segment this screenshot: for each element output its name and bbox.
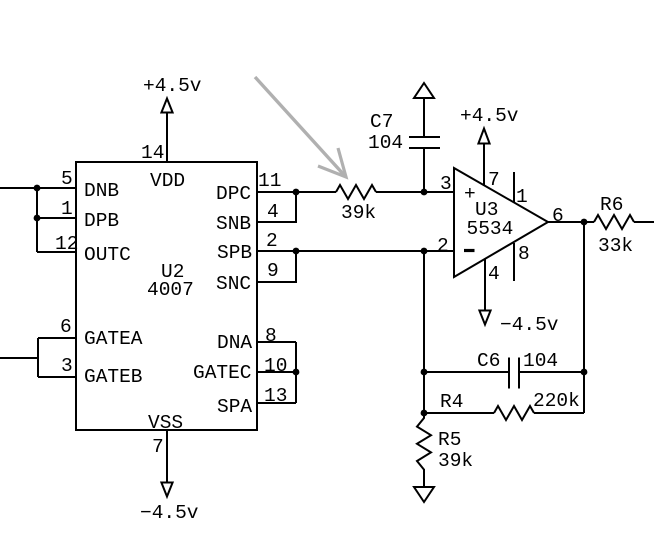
svg-text:DPB: DPB — [84, 210, 119, 232]
wire pin 14 VDD — [166, 112, 168, 162]
wire feedback left vertical — [423, 251, 425, 413]
svg-text:8: 8 — [265, 325, 277, 347]
node junction on pin5 wire — [34, 185, 41, 192]
wire pin 12 OUTC — [37, 251, 76, 253]
node junction pin11 — [293, 189, 300, 196]
svg-text:GATEC: GATEC — [193, 362, 252, 384]
svg-text:R6: R6 — [600, 194, 623, 216]
svg-text:+4.5v: +4.5v — [143, 75, 202, 97]
svg-text:1: 1 — [516, 186, 528, 208]
node junction C7 tap — [421, 189, 428, 196]
power +4.5v arrow (pin14) — [161, 99, 172, 113]
wire pin 4 SNB — [257, 192, 296, 222]
wire input left — [0, 357, 38, 359]
ground below R5 — [414, 487, 434, 502]
svg-text:SPA: SPA — [217, 396, 252, 418]
svg-text:4: 4 — [488, 263, 500, 285]
svg-text:39k: 39k — [438, 450, 473, 472]
resistor R4 — [494, 406, 534, 420]
wire pin 6 GATEA — [38, 337, 76, 339]
node junction output — [581, 219, 588, 226]
wire opamp pin4 supply — [484, 259, 486, 311]
node junction pin1 — [34, 215, 41, 222]
wire feedback right vertical — [583, 222, 585, 413]
wire R4 right — [534, 412, 584, 414]
capacitor C6 plates — [508, 358, 510, 389]
svg-text:GATEA: GATEA — [84, 328, 143, 350]
svg-text:6: 6 — [60, 316, 72, 338]
resistor R6 — [594, 215, 634, 229]
svg-text:2: 2 — [266, 230, 278, 252]
opamp comp pin 8 bar — [513, 243, 515, 281]
svg-text:DPC: DPC — [216, 183, 251, 205]
svg-text:+4.5v: +4.5v — [460, 105, 519, 127]
power +4.5v arrow (opamp) — [478, 129, 489, 144]
svg-text:14: 14 — [141, 142, 164, 164]
svg-text:9: 9 — [267, 260, 279, 282]
wire opamp output — [548, 221, 594, 223]
svg-text:4007: 4007 — [147, 279, 194, 301]
svg-text:13: 13 — [264, 385, 287, 407]
power -4.5v arrow (opamp) — [479, 311, 490, 325]
annotation gray arrow — [255, 77, 346, 177]
svg-text:39k: 39k — [341, 202, 376, 224]
wire pin 8 DNA — [257, 341, 296, 343]
svg-text:OUTC: OUTC — [84, 244, 131, 266]
ground triangle above C7 — [414, 83, 434, 98]
svg-text:5: 5 — [61, 168, 73, 190]
node junction feedback tap — [421, 248, 428, 255]
svg-text:6: 6 — [552, 205, 564, 227]
svg-text:SNB: SNB — [216, 213, 251, 235]
wire pin 9 SNC — [257, 251, 296, 282]
wire pin 10 GATEC — [257, 371, 296, 373]
svg-text:1: 1 — [61, 198, 73, 220]
wire C7 bottom — [423, 148, 425, 192]
wire R5 bottom — [423, 469, 425, 487]
op-amp U3 body — [454, 168, 548, 277]
svg-text:104: 104 — [523, 350, 558, 372]
svg-text:104: 104 — [368, 132, 403, 154]
wire C7 top — [423, 98, 425, 137]
wire vertical tie 5-1-12 — [36, 188, 38, 252]
label - input — [464, 249, 475, 252]
svg-text:11: 11 — [258, 170, 281, 192]
IC U2 body — [76, 162, 257, 430]
node junction C6 left — [421, 369, 428, 376]
svg-text:C6: C6 — [477, 350, 500, 372]
wire vertical tie 8-10-13 — [295, 342, 297, 403]
svg-text:2: 2 — [437, 235, 449, 257]
svg-text:3: 3 — [61, 355, 73, 377]
svg-text:C7: C7 — [370, 111, 393, 133]
power -4.5v arrow (pin7) — [161, 483, 172, 497]
svg-text:7: 7 — [152, 436, 164, 458]
wire C6 left — [424, 371, 508, 373]
wire pin 13 SPA — [257, 402, 296, 404]
svg-text:VSS: VSS — [148, 412, 183, 434]
node junction pin10 — [293, 369, 300, 376]
svg-text:R4: R4 — [440, 391, 463, 413]
svg-text:33k: 33k — [598, 235, 633, 257]
opamp comp pin 1 bar — [513, 172, 515, 202]
svg-text:DNB: DNB — [84, 180, 119, 202]
wire vertical tie 6-3 — [37, 338, 39, 377]
svg-text:SNC: SNC — [216, 273, 251, 295]
wire R4 left — [424, 412, 494, 414]
node junction C6 right — [581, 369, 588, 376]
svg-text:12: 12 — [55, 233, 78, 255]
svg-text:−4.5v: −4.5v — [500, 314, 559, 336]
svg-text:DNA: DNA — [217, 332, 252, 354]
svg-text:SPB: SPB — [217, 242, 252, 264]
svg-text:3: 3 — [440, 173, 452, 195]
svg-text:GATEB: GATEB — [84, 366, 143, 388]
wire pin 3 GATEB — [38, 376, 76, 378]
svg-text:8: 8 — [518, 243, 530, 265]
svg-text:7: 7 — [488, 169, 500, 191]
wire pin 7 VSS — [166, 430, 168, 483]
wire C6 right — [520, 371, 584, 373]
svg-text:5534: 5534 — [467, 218, 514, 240]
svg-text:R5: R5 — [438, 429, 461, 451]
capacitor C7 plates — [409, 136, 440, 138]
wire pin 2 SPB to opamp pin2 — [257, 250, 454, 252]
resistor 39k — [336, 185, 376, 199]
wire opamp pin7 supply — [483, 144, 485, 186]
svg-text:10: 10 — [264, 355, 287, 377]
wire pin 5 DNB — [0, 187, 76, 189]
svg-text:VDD: VDD — [150, 170, 185, 192]
wire pin 11 DPC to opamp pin3 — [257, 191, 336, 193]
svg-text:−4.5v: −4.5v — [140, 502, 199, 524]
resistor R5 — [417, 413, 431, 470]
wire pin 1 DPB — [37, 217, 76, 219]
svg-text:+: + — [464, 183, 476, 205]
node junction pin2 — [293, 248, 300, 255]
svg-text:4: 4 — [267, 201, 279, 223]
svg-text:220k: 220k — [533, 390, 580, 412]
node junction R4/R5 — [421, 410, 428, 417]
